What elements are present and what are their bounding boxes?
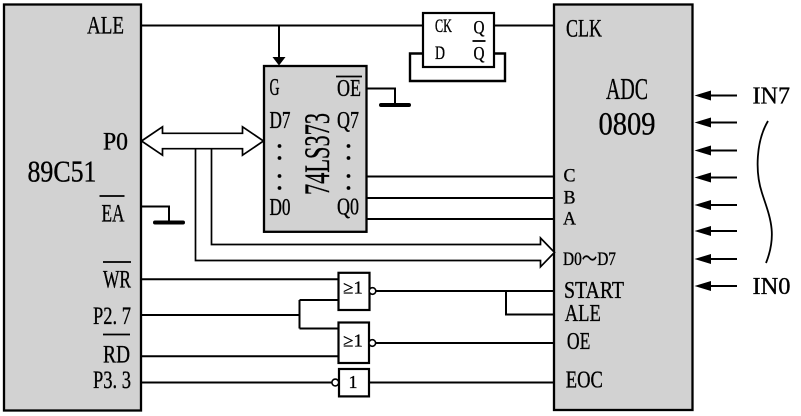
svg-text:89C51: 89C51 — [28, 154, 97, 189]
svg-text:P3. 3: P3. 3 — [93, 367, 131, 394]
latch 74LS373 box — [264, 66, 367, 232]
svg-text:D: D — [435, 43, 445, 64]
wire to ADC B — [367, 197, 555, 199]
svg-text:D0: D0 — [270, 195, 291, 221]
wire P2.7 to gates — [141, 300, 339, 329]
svg-text:Q7: Q7 — [337, 108, 359, 134]
wire 373 OE to ground — [367, 89, 396, 104]
right column dots — [347, 144, 351, 190]
left column dots — [278, 144, 282, 190]
svg-text:D7: D7 — [270, 108, 291, 134]
svg-text:CLK: CLK — [566, 16, 602, 43]
svg-text:B: B — [564, 188, 576, 209]
svg-text:EOC: EOC — [566, 368, 603, 394]
svg-text:Q0: Q0 — [337, 195, 359, 221]
svg-text:ALE: ALE — [87, 13, 124, 40]
wire P3.3 to gate U4 — [141, 382, 332, 384]
D flip-flop box — [423, 13, 494, 67]
wire branch START to ALE — [506, 291, 554, 315]
bus arrow P0 (bidirectional hollow) — [142, 127, 264, 155]
svg-text:Q: Q — [474, 18, 485, 39]
svg-text:WR: WR — [103, 267, 131, 294]
svg-text:74LS373: 74LS373 — [297, 113, 337, 195]
bus ribbon P0 down to ADC D0~D7 (hollow arrow) — [196, 149, 555, 267]
svg-text:RD: RD — [103, 342, 130, 369]
svg-text:G: G — [270, 75, 280, 101]
ground (74LS373 OE) — [381, 103, 409, 107]
wire Q outputs to ADC C — [367, 176, 555, 178]
svg-text:CK: CK — [435, 16, 452, 37]
svg-text:≥1: ≥1 — [343, 331, 363, 351]
wire U3 output to ADC OE — [376, 342, 554, 344]
wire flip-flop Q to ADC CLK — [494, 25, 554, 27]
wire U4 to ADC EOC — [369, 382, 554, 384]
svg-text:1: 1 — [349, 372, 358, 392]
buffer gate U4 — [339, 369, 369, 396]
svg-text:OE: OE — [337, 76, 361, 102]
ADC0809 box — [554, 5, 693, 411]
wire ALE branch down to 74LS373 G — [278, 26, 280, 59]
OR gate U3 — [339, 323, 370, 364]
svg-text:0809: 0809 — [599, 107, 656, 143]
wire ALE from 89C51 to flip-flop CK — [141, 25, 423, 27]
wire RD to gate U3 input — [141, 355, 339, 357]
wire to ADC A — [367, 218, 555, 220]
svg-text:P0: P0 — [103, 129, 128, 156]
svg-text:Q: Q — [474, 44, 485, 65]
ground (EA) — [155, 221, 183, 225]
svg-text:D0～D7: D0～D7 — [563, 249, 616, 270]
OR gate U2 — [339, 273, 370, 310]
svg-text:IN7: IN7 — [753, 84, 791, 110]
wire WR to gate U2 input — [141, 278, 339, 280]
svg-text:OE: OE — [567, 329, 591, 355]
brace curve for inputs — [758, 121, 772, 263]
svg-text:EA: EA — [102, 201, 125, 228]
svg-text:IN0: IN0 — [753, 274, 791, 300]
svg-text:C: C — [564, 166, 576, 187]
svg-text:ALE: ALE — [565, 301, 601, 327]
flip-flop feedback wire D to Qbar — [410, 54, 505, 82]
IC 89C51 box — [4, 5, 141, 411]
svg-text:P2. 7: P2. 7 — [93, 303, 131, 330]
wire EA to ground — [141, 207, 169, 222]
svg-text:A: A — [563, 209, 576, 230]
svg-text:≥1: ≥1 — [343, 278, 363, 298]
svg-text:ADC: ADC — [606, 71, 648, 106]
analog input arrows IN7..IN0 — [709, 96, 737, 287]
wire U2 output to ADC START — [376, 290, 554, 292]
